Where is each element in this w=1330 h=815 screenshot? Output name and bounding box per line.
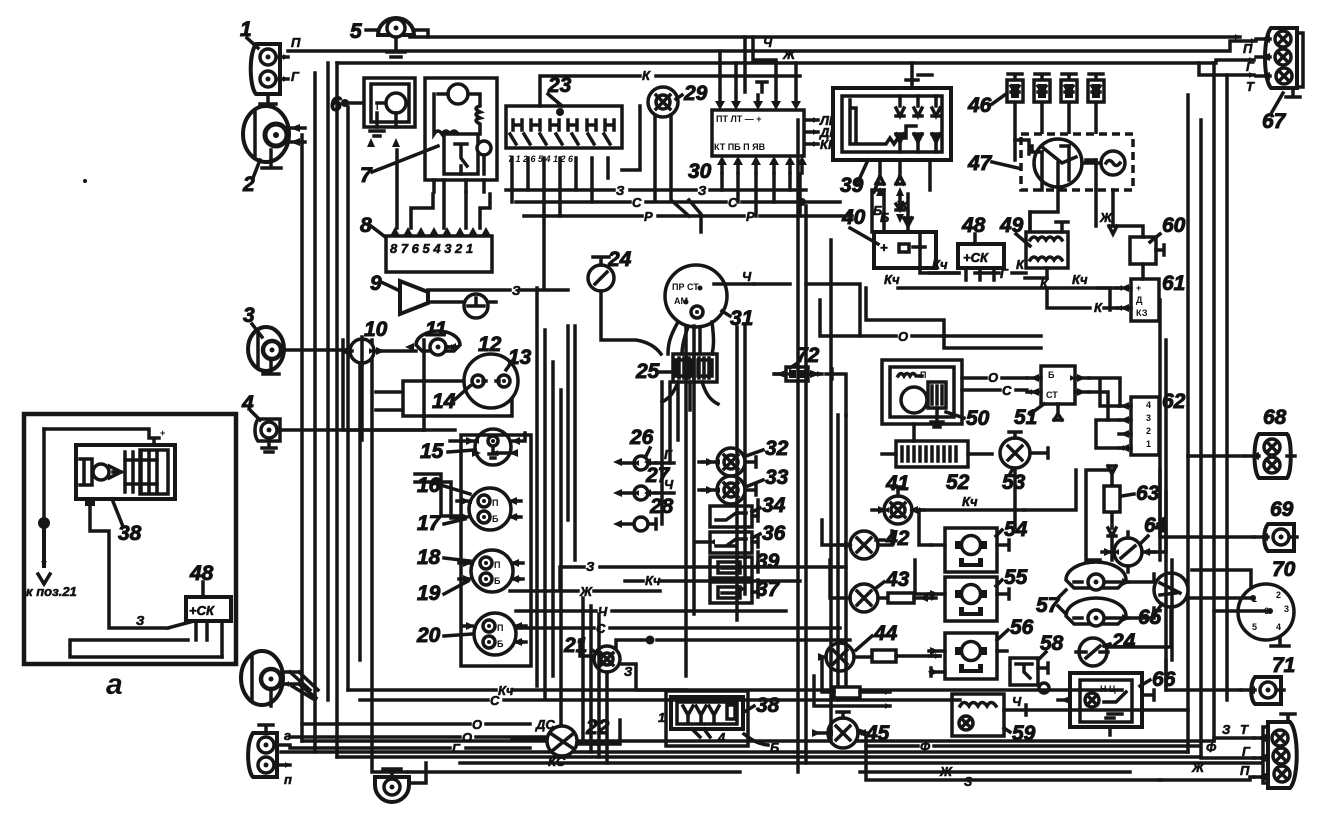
svg-text:5: 5 xyxy=(350,20,362,43)
connector 69 xyxy=(1254,498,1297,551)
resistor 60 xyxy=(1130,214,1186,264)
wire Г bottom-left xyxy=(290,746,530,750)
wire right vertical bus 3 xyxy=(1212,63,1216,741)
relay 6 xyxy=(330,78,415,136)
regulator 7 xyxy=(360,78,497,192)
relay 51 xyxy=(890,366,1089,429)
svg-text:КТ ПБ П ЯВ: КТ ПБ П ЯВ xyxy=(714,142,766,152)
svg-text:Д: Д xyxy=(1136,295,1143,305)
svg-text:33: 33 xyxy=(765,466,789,489)
svg-text:ДС: ДС xyxy=(535,717,555,732)
svg-text:12: 12 xyxy=(478,333,502,356)
heater motor 50 xyxy=(882,360,990,430)
svg-text:34: 34 xyxy=(762,494,786,517)
svg-text:59: 59 xyxy=(1012,722,1036,745)
wire Кч bottom xyxy=(348,688,1122,692)
wire lamp11 to 13 xyxy=(448,345,456,349)
wire generator down xyxy=(872,190,884,232)
svg-text:4: 4 xyxy=(717,730,726,745)
svg-text:+: + xyxy=(1136,283,1141,293)
svg-text:+: + xyxy=(880,240,888,255)
svg-text:С: С xyxy=(632,195,642,210)
svg-text:71: 71 xyxy=(1272,654,1295,677)
connector 1 xyxy=(240,18,301,104)
lamp 44 xyxy=(820,622,940,671)
svg-text:О: О xyxy=(472,717,482,732)
svg-text:Ж: Ж xyxy=(1099,210,1113,225)
svg-text:2: 2 xyxy=(1276,590,1281,600)
wire 45 drop xyxy=(866,733,1160,780)
wire Ч 31 right xyxy=(754,284,860,336)
connector bottom-right xyxy=(1240,714,1297,788)
wire cluster right Ж xyxy=(510,589,660,593)
svg-text:15: 15 xyxy=(420,440,444,463)
svg-text:Ж: Ж xyxy=(579,584,593,599)
svg-text:Б: Б xyxy=(1048,370,1055,380)
svg-text:8 7 6 5 4 3 2 1: 8 7 6 5 4 3 2 1 xyxy=(390,241,473,256)
svg-text:КЗ: КЗ xyxy=(1136,308,1148,318)
wire Р row xyxy=(524,214,852,218)
wire center verticals C xyxy=(568,326,575,560)
wire left vertical bus 5 xyxy=(346,107,350,690)
svg-text:50: 50 xyxy=(966,407,990,430)
battery 40 xyxy=(841,190,936,268)
breaker 64 xyxy=(1102,514,1168,572)
lamp 45 xyxy=(814,712,890,748)
svg-text:69: 69 xyxy=(1270,498,1294,521)
wire top С xyxy=(288,41,1256,51)
svg-text:Р: Р xyxy=(746,209,755,224)
indicator block 30 xyxy=(688,82,839,183)
svg-text:а: а xyxy=(106,668,123,701)
wire 42 43 links xyxy=(822,520,850,598)
lamp 5 top xyxy=(350,18,428,57)
wire bottom-left diagonals xyxy=(290,672,315,700)
sidelight 3 xyxy=(243,304,351,374)
wire 64 63 loop xyxy=(1086,470,1166,560)
wire 57 65 links xyxy=(1107,574,1171,647)
svg-text:Г: Г xyxy=(1246,59,1255,74)
svg-text:68: 68 xyxy=(1263,406,1287,429)
svg-text:Ч: Ч xyxy=(1012,694,1022,709)
svg-text:С: С xyxy=(1002,383,1012,398)
svg-text:46: 46 xyxy=(967,94,992,117)
wire far right verticals xyxy=(1160,300,1172,690)
svg-text:З: З xyxy=(586,559,595,574)
wire 21 left xyxy=(580,640,594,656)
switch 34 xyxy=(710,494,786,527)
svg-text:41: 41 xyxy=(885,472,909,495)
connector 71 xyxy=(1241,654,1295,704)
horn bottom xyxy=(375,763,426,802)
svg-text:43: 43 xyxy=(885,568,910,591)
svg-text:З: З xyxy=(698,183,707,198)
wire left vertical bus 6 xyxy=(358,350,362,660)
connector lower-left xyxy=(248,725,292,787)
wire center verticals A xyxy=(537,288,561,723)
svg-text:Б: Б xyxy=(494,576,501,586)
wire left vertical bus 3 xyxy=(326,63,330,700)
wire С bottom xyxy=(360,698,960,702)
wire center verticals B xyxy=(583,598,607,763)
wire Ф bottom xyxy=(866,744,1200,748)
svg-text:П: П xyxy=(920,370,926,380)
wire 44 resistor right xyxy=(930,654,940,658)
generator 39 xyxy=(833,63,951,218)
wire bottom bus 2 xyxy=(281,750,1188,754)
relay 55 xyxy=(929,566,1028,621)
wire right vertical bus 4 xyxy=(1225,75,1229,700)
switch 38 inset xyxy=(44,428,175,545)
svg-text:З: З xyxy=(512,283,521,298)
relay 56 xyxy=(929,616,1034,679)
51 arrows xyxy=(1030,374,1086,396)
svg-text:О: О xyxy=(988,370,998,385)
wire top drops center xyxy=(745,37,776,92)
wire О2 bottom-left xyxy=(290,735,546,739)
relay 65 xyxy=(1138,573,1188,629)
svg-text:Ж: Ж xyxy=(939,764,953,779)
svg-text:52: 52 xyxy=(946,471,970,494)
wire 34-37 rights xyxy=(756,500,760,592)
wire Кч long xyxy=(898,232,1110,310)
wire right-center verticals xyxy=(798,120,846,772)
svg-text:К: К xyxy=(642,68,651,83)
switch 29 xyxy=(648,82,708,216)
72 arrows xyxy=(775,370,821,378)
svg-text:Кч: Кч xyxy=(932,257,948,272)
wire left mid horizontals xyxy=(343,340,424,430)
svg-text:О: О xyxy=(462,730,472,745)
svg-text:42: 42 xyxy=(885,527,910,550)
switch 39 xyxy=(710,550,780,578)
wire top Ч xyxy=(410,35,1240,39)
connector 67 xyxy=(1243,28,1303,133)
26-28 arrows xyxy=(613,458,651,528)
lamp 4 xyxy=(241,392,424,452)
svg-text:Ж: Ж xyxy=(782,47,796,62)
wire top Ж xyxy=(337,60,1254,63)
wire battery leads xyxy=(929,271,1026,275)
buzzer 58 xyxy=(1010,632,1064,693)
svg-text:44: 44 xyxy=(873,622,898,645)
svg-text:13: 13 xyxy=(508,346,532,369)
diode 72 xyxy=(774,344,832,381)
wire fusebox risers xyxy=(512,106,640,288)
svg-text:П: П xyxy=(494,560,500,570)
wire Кч short mid xyxy=(625,579,800,583)
wire З row xyxy=(506,188,806,192)
svg-text:24: 24 xyxy=(1111,630,1136,653)
wire 46-47 links xyxy=(1015,140,1096,160)
wire 50 down xyxy=(912,424,916,441)
svg-text:П: П xyxy=(492,498,498,508)
wire 54 55 left links xyxy=(915,510,931,594)
lamp 41 xyxy=(872,472,1024,524)
svg-text:Б: Б xyxy=(770,740,779,755)
svg-text:27: 27 xyxy=(645,464,671,487)
lamp right of horn 9 xyxy=(464,294,496,318)
svg-text:Ч: Ч xyxy=(763,35,773,50)
wire 31 fan to 25 xyxy=(668,322,714,354)
svg-text:3: 3 xyxy=(1284,604,1289,614)
svg-text:З: З xyxy=(624,664,633,679)
horns 57 xyxy=(1036,562,1128,626)
svg-text:38: 38 xyxy=(756,694,780,717)
gauge 15 xyxy=(420,429,525,465)
svg-text:63: 63 xyxy=(1136,482,1160,505)
lamp 42 xyxy=(842,527,910,559)
inset wire З xyxy=(90,501,194,628)
ignition switch 31 xyxy=(665,265,754,330)
coil 49 xyxy=(999,214,1068,291)
svg-text:Г: Г xyxy=(1000,266,1009,281)
gauge 18/19 xyxy=(417,546,523,605)
switch 22 xyxy=(529,716,610,769)
wire left vertical bus 4 xyxy=(335,63,339,757)
svg-text:Г: Г xyxy=(452,741,461,756)
wire 29 stem xyxy=(689,200,701,232)
wire 71 stub xyxy=(1166,660,1241,690)
svg-text:П: П xyxy=(291,35,301,50)
wire 30 drops xyxy=(722,174,800,216)
lamp 11 xyxy=(416,318,460,355)
lamp 33 xyxy=(703,466,789,504)
wire left vertical bus 1 xyxy=(300,135,304,741)
svg-text:49: 49 xyxy=(999,214,1024,237)
wire 10 down xyxy=(360,363,364,440)
svg-text:32: 32 xyxy=(765,437,789,460)
svg-text:19: 19 xyxy=(417,582,441,605)
wire 25 fan below xyxy=(662,382,718,410)
connector 48 xyxy=(958,214,1004,280)
svg-text:Г: Г xyxy=(291,69,300,84)
svg-text:55: 55 xyxy=(1004,566,1028,589)
10 11 arrows xyxy=(339,343,456,355)
svg-text:45: 45 xyxy=(865,722,890,745)
wire 69 stub xyxy=(1160,470,1254,537)
headlight lower-left xyxy=(241,651,318,706)
resistor 63 xyxy=(1104,466,1160,536)
lamp 32 xyxy=(703,437,789,476)
wire Ж mid right xyxy=(1094,190,1098,226)
switch 36 xyxy=(696,522,786,553)
svg-text:+СК: +СК xyxy=(963,250,989,265)
svg-text:7: 7 xyxy=(360,164,373,187)
61 62 arrows xyxy=(1120,284,1129,312)
svg-text:С: С xyxy=(490,693,500,708)
svg-text:61: 61 xyxy=(1162,272,1185,295)
wire right vertical bus 1 xyxy=(1186,95,1190,752)
svg-text:58: 58 xyxy=(1040,632,1064,655)
wire Ж cluster left xyxy=(424,340,455,430)
svg-text:5: 5 xyxy=(1252,622,1257,632)
wire 72 right link xyxy=(832,374,846,415)
svg-text:1: 1 xyxy=(1146,439,1151,449)
wire О right of 21 xyxy=(616,640,850,648)
svg-text:Б: Б xyxy=(497,639,504,649)
horn 9 xyxy=(370,272,568,314)
switch 38 main xyxy=(658,691,780,755)
svg-text:Ч: Ч xyxy=(742,269,752,284)
svg-text:20: 20 xyxy=(416,624,441,647)
wire 53 54 link xyxy=(1013,468,1017,528)
svg-text:25: 25 xyxy=(635,360,660,383)
wire 31 verticals xyxy=(699,327,745,620)
svg-text:П: П xyxy=(1243,41,1253,56)
svg-text:Ф: Ф xyxy=(920,739,931,754)
lamp 43 xyxy=(850,568,936,612)
svg-text:+: + xyxy=(160,428,165,438)
svg-text:18: 18 xyxy=(417,546,441,569)
switch 53 xyxy=(1000,432,1048,494)
wire 60 link xyxy=(1120,226,1143,279)
wire 59 right xyxy=(1026,708,1188,712)
distributor 47 xyxy=(967,134,1133,234)
svg-text:п: п xyxy=(284,772,292,787)
svg-text:+СК: +СК xyxy=(189,603,215,618)
inset frame a xyxy=(24,414,236,664)
resistor 52 xyxy=(882,441,992,494)
speck xyxy=(83,179,87,183)
svg-text:К: К xyxy=(1094,300,1103,315)
wire К to 61 xyxy=(1047,288,1090,308)
lamp terminal arrows xyxy=(706,458,715,494)
relay 54 xyxy=(931,518,1028,572)
6 pins arrows xyxy=(367,138,400,147)
wire bottom-right connector labels xyxy=(1201,738,1254,777)
wire К top xyxy=(540,76,800,106)
wire bottom bus 3 xyxy=(337,755,1201,759)
svg-text:ПТ ЛТ — +: ПТ ЛТ — + xyxy=(716,114,762,124)
svg-text:Б: Б xyxy=(880,210,889,225)
breaker 24 top xyxy=(588,248,661,354)
svg-text:К: К xyxy=(1016,257,1025,272)
svg-text:4: 4 xyxy=(1276,622,1281,632)
svg-text:Р: Р xyxy=(644,209,653,224)
wire plug drop links xyxy=(1015,140,1096,190)
svg-text:Ф: Ф xyxy=(1206,740,1217,755)
unit 61 xyxy=(1117,272,1185,321)
39 Б arrows xyxy=(876,187,904,223)
svg-text:КС: КС xyxy=(548,754,566,769)
svg-text:17: 17 xyxy=(417,512,442,535)
svg-text:С: С xyxy=(596,621,606,636)
svg-text:16: 16 xyxy=(417,474,441,497)
svg-text:Т: Т xyxy=(1246,79,1255,94)
plugs 46 xyxy=(967,74,1104,160)
gauge 16/17 xyxy=(415,435,531,666)
wire С row xyxy=(516,200,840,204)
wire 70 stubs xyxy=(1188,570,1270,611)
svg-text:З: З xyxy=(136,613,145,628)
wire cluster right Ч xyxy=(516,609,786,613)
svg-text:7 1 2 6 5 4 1 2 6: 7 1 2 6 5 4 1 2 6 xyxy=(508,154,574,164)
gauge terminal arrows xyxy=(466,437,520,457)
svg-text:Ч: Ч xyxy=(598,604,608,619)
wire 66 drop xyxy=(1108,727,1112,735)
svg-text:Ж: Ж xyxy=(1191,760,1205,775)
svg-text:70: 70 xyxy=(1272,558,1296,581)
relay 59 xyxy=(952,694,1036,745)
svg-text:1: 1 xyxy=(658,710,665,725)
svg-text:З: З xyxy=(616,183,625,198)
svg-text:60: 60 xyxy=(1162,214,1186,237)
inset arrow to pos21 xyxy=(26,429,77,599)
svg-text:36: 36 xyxy=(762,522,786,545)
inset connector 48 xyxy=(186,562,231,621)
contact 28 xyxy=(620,495,674,531)
wire О mid xyxy=(820,300,1041,336)
connector 68 xyxy=(1245,406,1295,478)
wire 47 to 49 xyxy=(1028,212,1032,229)
wire bottom Ж bus xyxy=(408,772,1250,780)
svg-text:6: 6 xyxy=(330,93,342,116)
fuse 25 xyxy=(635,354,717,383)
svg-text:31: 31 xyxy=(730,307,753,330)
lamp 21 xyxy=(563,634,636,679)
plug socket 70 xyxy=(1238,558,1296,646)
svg-text:П: П xyxy=(497,623,503,633)
svg-text:30: 30 xyxy=(688,160,712,183)
wire left vertical bus 2 xyxy=(313,73,317,752)
wire staircase mid xyxy=(866,288,1041,348)
speedometer 13 with lamps 12,14 xyxy=(376,333,532,416)
wire 62 left links xyxy=(1096,380,1119,448)
svg-text:24: 24 xyxy=(607,248,632,271)
inset wires under 48 xyxy=(196,621,222,657)
svg-text:47: 47 xyxy=(967,152,993,175)
wire З upper cluster xyxy=(560,567,846,590)
turn lamp 10 xyxy=(348,318,416,365)
svg-text:Кч: Кч xyxy=(1072,272,1088,287)
contact 27 xyxy=(622,464,674,500)
wire fuse mid xyxy=(834,687,860,698)
wire 61 left links xyxy=(1098,288,1117,308)
svg-text:к поз.21: к поз.21 xyxy=(26,584,77,599)
wire cluster right С xyxy=(516,626,840,630)
wire bottom bus 1 xyxy=(302,739,1214,743)
wire bottom bus 4 xyxy=(460,761,1262,765)
gauge 20 xyxy=(416,613,526,655)
svg-text:Кч: Кч xyxy=(498,683,514,698)
svg-text:4: 4 xyxy=(1146,400,1151,410)
svg-text:Б: Б xyxy=(492,514,499,524)
svg-text:ПР СТ: ПР СТ xyxy=(672,282,699,292)
switch 37 xyxy=(710,578,781,603)
wire top T drop xyxy=(1199,63,1254,75)
svg-text:29: 29 xyxy=(683,82,708,105)
wire О/С into 51 xyxy=(962,378,1027,390)
wire 41 Кч xyxy=(1024,470,1076,510)
svg-text:О: О xyxy=(898,329,908,344)
svg-text:3: 3 xyxy=(1146,413,1151,423)
svg-text:56: 56 xyxy=(1010,616,1034,639)
wire 68 stub xyxy=(1188,454,1245,458)
fuse box 8 xyxy=(360,150,492,272)
svg-text:10: 10 xyxy=(364,318,388,341)
unit 62 xyxy=(1119,390,1186,455)
switch 66 xyxy=(1058,668,1176,727)
svg-text:З: З xyxy=(1222,722,1231,737)
contact 26 xyxy=(622,426,674,470)
svg-text:Кч: Кч xyxy=(645,573,661,588)
svg-text:2: 2 xyxy=(1146,426,1151,436)
svg-text:11: 11 xyxy=(425,318,447,341)
breaker 24 lower xyxy=(1076,630,1136,666)
svg-text:Кч: Кч xyxy=(884,272,900,287)
svg-text:Т: Т xyxy=(1240,722,1249,737)
